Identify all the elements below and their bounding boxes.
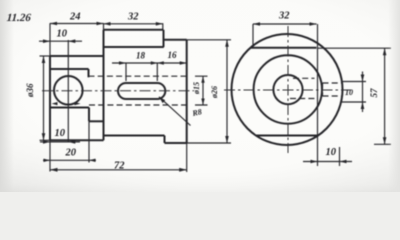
long extension right of chord down to 10 dim (317, 24, 319, 166)
left view: right section bottom edge (165, 142, 187, 144)
left view: inner upper boss line (50, 68, 89, 70)
extension 10rv right (339, 147, 341, 166)
left view: middle section bottom edge (104, 135, 165, 137)
extension for 20 right (step edge extended) (88, 121, 90, 162)
svg-text:72: 72 (114, 161, 125, 172)
left view: right section top edge (164, 39, 187, 41)
dimension line 10 top (39, 40, 82, 42)
arrow 10bl right (68, 140, 75, 144)
extension line 16 right / right face up (186, 40, 188, 60)
axis line of left view (42, 90, 194, 92)
arrow 72 left (50, 168, 58, 172)
arrow 8dim top outside (361, 75, 365, 82)
svg-text:24: 24 (69, 12, 81, 23)
arrow 10rv left outside (311, 160, 318, 164)
arrow d15 top (201, 76, 204, 83)
left view: flange bottom edge (50, 139, 104, 141)
extension 32rv left down to chord (252, 24, 254, 48)
arrow 18 left (119, 61, 126, 65)
dimension line 20 (43, 159, 96, 161)
hidden keyway left side (right view) (322, 83, 324, 96)
arrow d26 bottom (225, 136, 229, 143)
svg-text:10: 10 (345, 88, 353, 97)
dimension line 32 left view (104, 23, 163, 25)
extension line top left edge (49, 23, 51, 56)
extension ticks d15 (195, 76, 208, 105)
extension keyway bottom to 8-dim (342, 101, 367, 103)
dimension line 10 bottom right view (303, 161, 352, 163)
svg-text:10: 10 (326, 147, 337, 158)
dimension line d36 vertical (43, 56, 45, 140)
arrow leader R8 at slot (159, 97, 165, 103)
horizontal axis of right view (224, 89, 351, 91)
arrow 18 right (151, 61, 158, 64)
left view: hole circle in flange (54, 76, 83, 105)
arrow 24 left (50, 22, 57, 26)
hidden keyway top (right view) (323, 82, 342, 84)
hidden keyway bottom (right view) (323, 95, 342, 97)
arrow 16 right (180, 61, 187, 65)
arrow d36 bottom (42, 133, 46, 140)
left view: cylinder top silhouette line (104, 46, 164, 48)
dimension line 72 (50, 169, 187, 171)
dimension line d26 (226, 40, 228, 143)
svg-text:57: 57 (369, 88, 379, 98)
dimension line d15 (202, 76, 204, 105)
arrow d15 bottom (201, 99, 204, 106)
left view: inner upper step (88, 69, 90, 77)
left view: inner lower boss line (50, 107, 89, 109)
svg-text:11.26: 11.26 (6, 12, 31, 24)
left view: right face edge (186, 40, 188, 143)
right view: big circle (232, 34, 343, 145)
dimension line 32 right view (253, 23, 317, 25)
arrow 32 right (156, 22, 163, 26)
arrow 32rv right (310, 22, 317, 26)
extension slot right arc center (156, 63, 158, 81)
left view: inner lower ledge (89, 120, 104, 122)
svg-text:10: 10 (57, 29, 68, 40)
svg-text:R8: R8 (191, 107, 203, 118)
arrow 57 top (383, 48, 387, 55)
right view: top chord flat (251, 47, 317, 49)
svg-text:ø36: ø36 (25, 83, 35, 98)
arrow 10rv right outside (340, 160, 347, 164)
dimension line 18 and 16 (112, 62, 187, 64)
hidden keyway upper line inside hub (right view) (293, 77, 315, 79)
arrow 20 right (89, 159, 96, 162)
arrow 8dim bottom outside (361, 102, 365, 109)
svg-text:10: 10 (55, 128, 66, 139)
svg-text:ø15: ø15 (192, 82, 201, 95)
dimension line 8/10 right of circle (362, 72, 364, 113)
tiny arrow pair inside flange hole (52, 102, 58, 105)
arrow 32rv left (253, 22, 260, 26)
hidden hole line upper (left view) (89, 75, 187, 77)
right view: inner hole circle (273, 75, 302, 104)
svg-text:ø26: ø26 (210, 86, 219, 99)
extension above divider x=103.5 (103, 23, 105, 30)
vertical axis of right view (287, 26, 289, 153)
extension 57 top (chord level) (318, 47, 391, 49)
arrow 20 left (44, 159, 51, 162)
extension d26 bottom (187, 142, 231, 144)
left view: top block upper edge (104, 29, 164, 31)
extension d36 bottom (40, 139, 51, 141)
extension continuation of left edge down to 72 dim (49, 140, 51, 171)
left view: slot obround (118, 83, 165, 99)
arrow 32 left (104, 22, 111, 26)
arrow 10top left outside (43, 39, 50, 43)
left view: bottom step vertical (164, 136, 166, 144)
extension 72 right (right face extended down) (186, 143, 188, 172)
extension d36 top (40, 55, 51, 57)
leader line R8 (159, 97, 191, 126)
svg-text:16: 16 (168, 50, 178, 60)
svg-text:18: 18 (136, 51, 146, 61)
right view: middle circle (254, 55, 322, 123)
left view: flange top edge (50, 55, 104, 57)
hidden keyway lower line inside hub (right view) (290, 98, 315, 100)
left view: left edge of flange (49, 56, 51, 140)
arrow 10top right outside (68, 39, 75, 43)
extension d26 top (187, 39, 231, 41)
left view: inner lower step (88, 108, 90, 122)
arrow d36 top (42, 56, 46, 63)
extension keyway top to 8-dim (343, 81, 367, 83)
arrow d26 top (225, 40, 229, 47)
svg-text:32: 32 (278, 11, 290, 22)
dimension line 24 (50, 23, 104, 25)
arrow 10bl left (43, 140, 50, 144)
right view: bottom chord flat (256, 135, 318, 137)
extension slot left arc center (125, 63, 127, 81)
hidden hole line lower (left view) (89, 104, 187, 106)
arrow 24 right (97, 22, 104, 26)
svg-text:20: 20 (65, 148, 77, 159)
extension 57 bottom (374, 143, 391, 145)
svg-text:32: 32 (127, 12, 139, 23)
arrow 72 right (179, 168, 187, 172)
arrow 16 left (157, 61, 164, 64)
extension 32 right (162, 23, 164, 30)
hole vertical centerline (left view) (67, 40, 69, 143)
left view: step vertical at right of top block (163, 30, 165, 47)
left view: divider between flange and middle block (103, 30, 105, 141)
arrow 57 bottom (383, 137, 387, 144)
dimension line 57 (384, 48, 386, 144)
dimension line 10 bottom-left (40, 141, 80, 143)
